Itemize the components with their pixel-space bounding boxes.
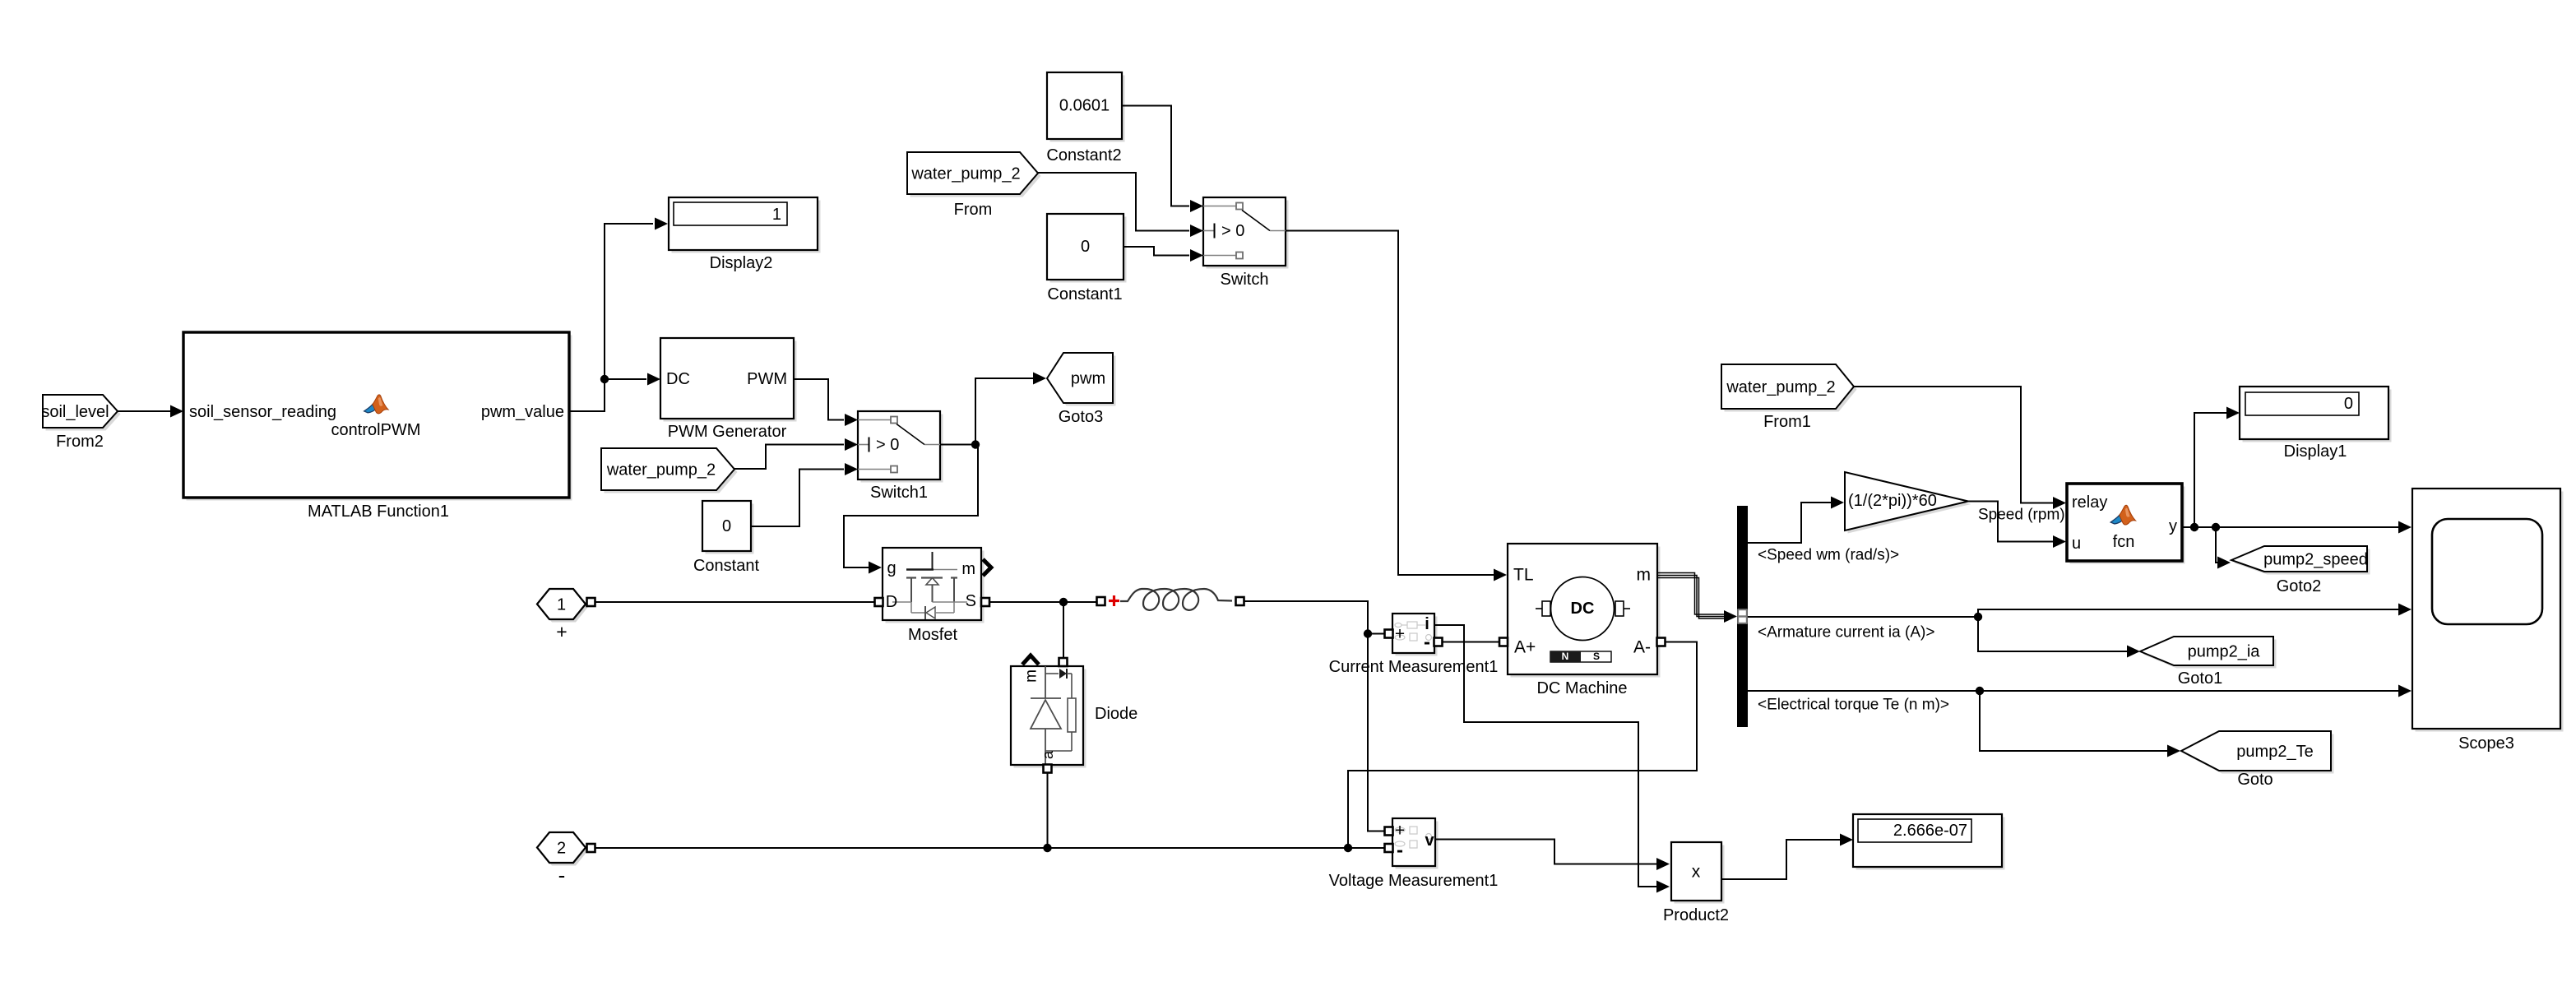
svg-text:water_pump_2: water_pump_2 xyxy=(1726,378,1835,396)
svg-text:Product2: Product2 xyxy=(1663,906,1729,924)
svg-text:Constant1: Constant1 xyxy=(1047,285,1122,303)
port square Diode bottom xyxy=(1044,765,1052,773)
svg-text:m: m xyxy=(1637,566,1652,585)
svg-text:-: - xyxy=(1424,632,1430,654)
svg-text:Constant2: Constant2 xyxy=(1046,146,1121,164)
svg-text:<Speed wm (rad/s)>: <Speed wm (rad/s)> xyxy=(1758,547,1899,564)
svg-text:DC: DC xyxy=(1571,600,1595,618)
port square port1 xyxy=(587,598,595,606)
bus selector (vertical bar) xyxy=(1737,506,1748,727)
port 1 (+ supply input) xyxy=(537,589,588,642)
svg-text:Switch1: Switch1 xyxy=(870,484,928,502)
wire fcn y output to Display1, Goto2 and Scope3 xyxy=(2182,407,2412,569)
node A- negative rail junction xyxy=(1344,844,1352,852)
wire junction down to Voltage Measurement1 plus xyxy=(1368,634,1385,831)
svg-text:+: + xyxy=(1395,822,1405,841)
port square Voltage Measurement1 plus xyxy=(1385,827,1393,836)
goto tag Goto1 (pump2_ia) xyxy=(2140,637,2277,688)
svg-text:1: 1 xyxy=(557,596,566,614)
wire From water_pump_2 to Switch input 2 xyxy=(1038,173,1189,231)
port square Current Measurement1 plus xyxy=(1385,630,1393,638)
oscilloscope Scope3 xyxy=(2412,489,2564,753)
goto tag Goto (pump2_Te) xyxy=(2181,731,2334,789)
wire DC Machine m output bus to Bus Selector xyxy=(1657,573,1737,623)
svg-text:water_pump_2: water_pump_2 xyxy=(606,461,716,479)
svg-text:v: v xyxy=(1425,831,1434,850)
node junction to Diode xyxy=(1059,598,1068,606)
svg-text:controlPWM: controlPWM xyxy=(331,421,421,439)
svg-text:TL: TL xyxy=(1513,566,1534,585)
wire pwm_value output to Display2 and PWM Generator xyxy=(569,218,668,412)
port square DC Machine A- xyxy=(1657,638,1666,646)
port square Voltage Measurement1 minus xyxy=(1385,844,1393,852)
svg-text:a: a xyxy=(1040,750,1056,759)
svg-text:0: 0 xyxy=(2344,395,2353,413)
port square DC Machine A+ xyxy=(1499,638,1508,646)
node pwm_value branch junction xyxy=(600,375,609,383)
wire bus output Armature current to Scope3 and Goto1 xyxy=(1748,604,2412,658)
net label Speed wm (rad/s) xyxy=(1758,547,1899,564)
constant Constant (0) xyxy=(693,501,759,575)
svg-text:pwm_value: pwm_value xyxy=(481,403,564,421)
voltmeter Voltage Measurement1 xyxy=(1329,818,1499,890)
svg-text:Scope3: Scope3 xyxy=(2458,734,2514,753)
inductor L1 (series coil) xyxy=(1109,589,1232,610)
from tag From1 (water_pump_2) xyxy=(1721,364,1857,431)
svg-text:N: N xyxy=(1562,651,1569,662)
wire junction down to Diode xyxy=(1063,602,1064,658)
net label Armature current ia (A) xyxy=(1758,624,1934,642)
multiplier Product2 xyxy=(1663,842,1729,924)
svg-text:DC: DC xyxy=(666,370,690,388)
svg-text:soil_level: soil_level xyxy=(41,403,109,421)
node Switch1 output junction xyxy=(971,440,980,448)
svg-text:relay: relay xyxy=(2072,493,2107,512)
node y output junction 2 xyxy=(2212,523,2220,531)
svg-text:0: 0 xyxy=(1081,238,1090,256)
wire positive rail port1 to Mosfet drain xyxy=(595,601,875,603)
port square Diode top xyxy=(1059,658,1068,666)
svg-text:-: - xyxy=(558,863,566,887)
wire Product2 output to Display xyxy=(1721,834,1853,880)
node Diode negative rail junction xyxy=(1043,844,1051,852)
svg-text:MATLAB Function1: MATLAB Function1 xyxy=(308,503,449,521)
svg-text:pump2_Te: pump2_Te xyxy=(2236,743,2313,761)
svg-text:m: m xyxy=(961,560,975,578)
wire Constant to Switch1 input 3 xyxy=(751,470,844,527)
gain K1 ((1/(2*pi))*60) xyxy=(1845,472,1971,534)
from tag water_pump_2 (to Switch1) xyxy=(601,448,738,493)
wire inductor to Current Measurement1 plus xyxy=(1244,601,1385,634)
svg-text:m: m xyxy=(1023,669,1040,683)
svg-text:Goto: Goto xyxy=(2237,771,2273,789)
svg-text:2: 2 xyxy=(557,840,566,858)
diode D1 (Diode block) xyxy=(1011,655,1137,768)
port square inductor right xyxy=(1236,597,1244,605)
wire Mosfet source to inductor xyxy=(989,601,1097,603)
port square Current Measurement1 minus xyxy=(1434,638,1443,646)
svg-text:1: 1 xyxy=(772,206,781,224)
from tag From2 (soil_level) xyxy=(41,395,120,451)
svg-text:x: x xyxy=(1692,863,1701,882)
svg-text:> 0: > 0 xyxy=(876,436,899,454)
svg-text:(1/(2*pi))*60: (1/(2*pi))*60 xyxy=(1848,492,1937,510)
wire water_pump_2 to Switch1 input 2 xyxy=(734,445,844,470)
svg-text:pump2_speed: pump2_speed xyxy=(2263,551,2368,569)
svg-text:Goto2: Goto2 xyxy=(2277,577,2321,595)
svg-text:Switch: Switch xyxy=(1221,271,1269,289)
wire bus output Speed wm to Gain xyxy=(1748,497,1844,544)
port square Mosfet drain xyxy=(875,598,883,606)
constant Constant2 (0.0601) xyxy=(1046,72,1124,164)
svg-text:Display2: Display2 xyxy=(710,254,773,272)
wire Switch1 output to Goto3 and Mosfet gate xyxy=(844,373,1046,574)
transistor Mosfet xyxy=(883,548,991,644)
wire Switch output to DC Machine TL input xyxy=(1286,231,1507,581)
wire Gain to fcn u input xyxy=(1968,502,2066,549)
svg-text:pump2_ia: pump2_ia xyxy=(2188,643,2261,661)
svg-text:Diode: Diode xyxy=(1095,705,1137,723)
MATLAB function U1 (controlPWM, MATLAB Function1) xyxy=(183,332,572,521)
MATLAB function fcn (relay) xyxy=(2067,484,2185,564)
svg-text:y: y xyxy=(2169,517,2177,535)
port square inductor left xyxy=(1097,597,1105,605)
svg-text:<Armature current ia (A)>: <Armature current ia (A)> xyxy=(1758,624,1934,642)
display Display1 (value 0) xyxy=(2240,387,2392,461)
svg-text:From1: From1 xyxy=(1763,413,1811,431)
subsystem PWM Generator xyxy=(660,338,797,441)
svg-text:fcn: fcn xyxy=(2113,533,2135,551)
svg-text:water_pump_2: water_pump_2 xyxy=(910,165,1020,183)
node armature current junction xyxy=(1974,613,1982,621)
net label Electrical torque Te (n m) xyxy=(1758,697,1949,714)
net label Speed (rpm) xyxy=(1978,507,2065,524)
svg-text:> 0: > 0 xyxy=(1221,222,1244,240)
wire soil_level to MATLAB Function1 xyxy=(118,405,183,418)
svg-text:Goto3: Goto3 xyxy=(1059,408,1103,426)
display Display (value 2.666e-07) xyxy=(1853,814,2005,870)
wire bus output Electrical torque to Scope3 and Goto xyxy=(1748,685,2412,757)
port square port2 xyxy=(587,844,595,852)
node positive rail to voltage measurement junction xyxy=(1364,629,1372,637)
svg-text:S: S xyxy=(1593,651,1600,662)
svg-text:S: S xyxy=(966,592,976,610)
wire Current Measurement1 i output to Product2 xyxy=(1434,625,1670,893)
port 2 (- supply input) xyxy=(537,832,588,887)
goto tag Goto2 (pump2_speed) xyxy=(2231,546,2370,595)
svg-text:Goto1: Goto1 xyxy=(2178,669,2222,688)
svg-text:DC Machine: DC Machine xyxy=(1536,679,1627,697)
from tag From (water_pump_2) xyxy=(907,152,1041,219)
wire negative rail port2 to Voltage Measurement1 minus xyxy=(595,847,1385,849)
svg-text:From2: From2 xyxy=(56,433,104,451)
svg-text:Mosfet: Mosfet xyxy=(908,626,957,644)
wire Voltage Measurement1 v output to Product2 xyxy=(1435,840,1670,871)
wire Constant2 to Switch input 1 xyxy=(1122,106,1189,206)
wire DC Machine A- to negative rail xyxy=(1348,642,1697,849)
ammeter Current Measurement1 xyxy=(1329,614,1499,676)
wire PWM Generator to Switch1 input 1 xyxy=(794,379,844,420)
display Display2 (value 1) xyxy=(669,197,821,272)
svg-text:Voltage Measurement1: Voltage Measurement1 xyxy=(1329,872,1499,890)
svg-text:D: D xyxy=(886,593,897,611)
svg-text:-: - xyxy=(1397,840,1403,862)
svg-text:PWM: PWM xyxy=(747,370,787,388)
svg-text:A+: A+ xyxy=(1514,638,1536,657)
svg-text:u: u xyxy=(2072,535,2081,553)
svg-text:+: + xyxy=(1395,625,1405,644)
svg-text:<Electrical torque Te (n m)>: <Electrical torque Te (n m)> xyxy=(1758,697,1949,714)
svg-text:0: 0 xyxy=(722,517,731,535)
svg-text:Current Measurement1: Current Measurement1 xyxy=(1329,658,1499,676)
svg-text:0.0601: 0.0601 xyxy=(1059,97,1110,115)
svg-text:2.666e-07: 2.666e-07 xyxy=(1893,822,1967,840)
wire Constant1 to Switch input 3 xyxy=(1124,247,1189,256)
wire From1 to fcn relay input xyxy=(1854,387,2066,509)
svg-text:soil_sensor_reading: soil_sensor_reading xyxy=(189,403,336,421)
goto tag Goto3 (pwm) xyxy=(1047,353,1116,426)
svg-text:+: + xyxy=(556,621,567,642)
svg-text:Display1: Display1 xyxy=(2284,442,2347,461)
wire Diode bottom to negative rail xyxy=(1047,772,1049,848)
node y output junction 1 xyxy=(2190,523,2198,531)
switch Switch1 xyxy=(845,411,943,502)
svg-text:g: g xyxy=(887,559,896,577)
svg-text:Constant: Constant xyxy=(693,557,759,575)
svg-text:A-: A- xyxy=(1633,638,1651,657)
svg-text:From: From xyxy=(954,201,993,219)
svg-text:Speed (rpm): Speed (rpm) xyxy=(1978,507,2065,524)
motor DC Machine xyxy=(1508,544,1661,697)
node electrical torque junction xyxy=(1976,687,1984,695)
svg-text:pwm: pwm xyxy=(1071,370,1105,388)
port square Mosfet source xyxy=(981,598,989,606)
constant Constant1 (0) xyxy=(1047,214,1127,303)
wire Current Measurement1 minus to DC Machine A+ xyxy=(1442,642,1499,643)
switch Switch xyxy=(1190,197,1289,289)
svg-text:PWM Generator: PWM Generator xyxy=(668,423,787,441)
